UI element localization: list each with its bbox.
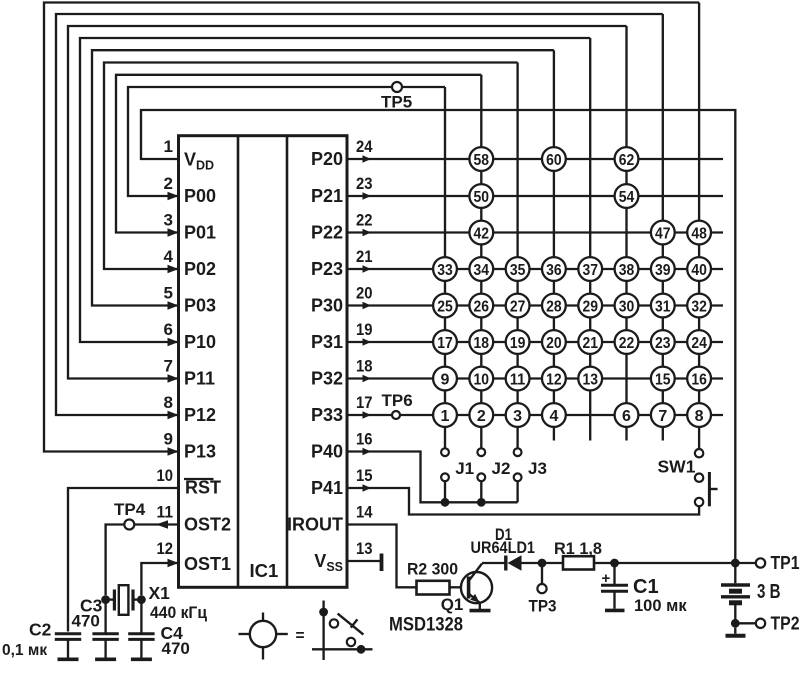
- svg-text:TP2: TP2: [771, 614, 800, 634]
- svg-text:8: 8: [695, 408, 704, 425]
- svg-text:23: 23: [356, 174, 373, 193]
- svg-text:2: 2: [164, 174, 173, 193]
- svg-text:5: 5: [164, 284, 173, 303]
- svg-text:12: 12: [157, 539, 174, 558]
- svg-text:13: 13: [582, 371, 598, 388]
- svg-text:42: 42: [474, 225, 490, 242]
- svg-text:9: 9: [164, 430, 173, 449]
- svg-text:SW1: SW1: [658, 457, 696, 477]
- svg-text:TP5: TP5: [381, 93, 412, 112]
- svg-text:18: 18: [474, 335, 490, 352]
- svg-text:28: 28: [546, 298, 562, 315]
- svg-text:0,1 мк: 0,1 мк: [2, 642, 47, 659]
- svg-text:11: 11: [157, 503, 174, 522]
- svg-text:22: 22: [356, 211, 373, 230]
- svg-text:P13: P13: [184, 442, 216, 462]
- svg-text:P22: P22: [311, 223, 343, 243]
- svg-text:TP3: TP3: [529, 598, 557, 616]
- svg-text:R1 1,8: R1 1,8: [554, 539, 602, 558]
- svg-text:470: 470: [72, 612, 100, 631]
- svg-text:100 мк: 100 мк: [634, 597, 687, 615]
- svg-text:OST1: OST1: [184, 554, 231, 574]
- svg-text:J3: J3: [528, 459, 547, 478]
- svg-text:3: 3: [513, 408, 522, 425]
- svg-text:60: 60: [546, 152, 562, 169]
- svg-text:36: 36: [546, 262, 562, 279]
- svg-text:R2 300: R2 300: [407, 560, 458, 579]
- svg-text:3: 3: [164, 211, 173, 230]
- svg-text:9: 9: [441, 371, 450, 388]
- svg-text:P11: P11: [184, 369, 215, 389]
- svg-text:P10: P10: [184, 332, 216, 352]
- svg-text:P40: P40: [311, 442, 343, 462]
- svg-text:TP6: TP6: [382, 391, 413, 410]
- svg-text:13: 13: [356, 539, 373, 558]
- svg-text:19: 19: [356, 320, 373, 339]
- svg-text:P21: P21: [311, 186, 343, 206]
- svg-text:TP1: TP1: [771, 553, 800, 573]
- svg-text:C2: C2: [29, 620, 52, 640]
- svg-text:Q1: Q1: [441, 595, 464, 614]
- svg-text:23: 23: [655, 335, 671, 352]
- svg-text:47: 47: [655, 225, 671, 242]
- svg-text:16: 16: [691, 371, 707, 388]
- svg-text:25: 25: [437, 298, 453, 315]
- svg-text:P30: P30: [311, 296, 343, 316]
- svg-text:35: 35: [510, 262, 526, 279]
- svg-text:P12: P12: [184, 405, 216, 425]
- svg-text:21: 21: [582, 335, 598, 352]
- svg-text:P03: P03: [184, 296, 216, 316]
- svg-text:24: 24: [356, 137, 373, 156]
- svg-text:15: 15: [655, 371, 671, 388]
- svg-text:IROUT: IROUT: [287, 515, 343, 535]
- svg-text:20: 20: [356, 284, 373, 303]
- svg-text:62: 62: [619, 152, 635, 169]
- svg-text:7: 7: [164, 357, 173, 376]
- svg-text:3 В: 3 В: [757, 581, 781, 603]
- svg-text:27: 27: [510, 298, 526, 315]
- svg-text:MSD1328: MSD1328: [389, 615, 463, 636]
- svg-text:10: 10: [474, 371, 490, 388]
- svg-text:10: 10: [157, 466, 174, 485]
- svg-text:RST: RST: [185, 478, 221, 498]
- svg-text:17: 17: [356, 393, 373, 412]
- svg-text:470: 470: [162, 639, 190, 658]
- svg-text:7: 7: [658, 408, 667, 425]
- svg-text:4: 4: [549, 408, 558, 425]
- svg-text:J2: J2: [492, 459, 511, 478]
- svg-text:C1: C1: [633, 576, 659, 598]
- svg-text:18: 18: [356, 357, 373, 376]
- svg-text:X1: X1: [149, 583, 171, 603]
- svg-text:P23: P23: [311, 259, 343, 279]
- svg-text:17: 17: [437, 335, 453, 352]
- svg-text:1: 1: [164, 137, 173, 156]
- svg-text:1: 1: [441, 408, 450, 425]
- svg-text:54: 54: [619, 189, 635, 206]
- svg-text:P02: P02: [184, 259, 216, 279]
- svg-text:UR64LD1: UR64LD1: [471, 538, 536, 557]
- svg-text:19: 19: [510, 335, 526, 352]
- svg-text:OST2: OST2: [184, 515, 231, 535]
- svg-text:21: 21: [356, 247, 373, 266]
- svg-text:P00: P00: [184, 186, 216, 206]
- svg-text:24: 24: [691, 335, 707, 352]
- svg-text:=: =: [296, 628, 305, 645]
- svg-text:37: 37: [582, 262, 598, 279]
- svg-text:P32: P32: [311, 369, 343, 389]
- svg-text:15: 15: [356, 466, 373, 485]
- svg-text:38: 38: [619, 262, 635, 279]
- svg-text:29: 29: [582, 298, 598, 315]
- svg-text:58: 58: [474, 152, 490, 169]
- svg-text:39: 39: [655, 262, 671, 279]
- svg-text:34: 34: [474, 262, 490, 279]
- svg-text:26: 26: [474, 298, 490, 315]
- svg-text:TP4: TP4: [114, 500, 146, 519]
- svg-text:16: 16: [356, 430, 373, 449]
- svg-text:IC1: IC1: [250, 560, 279, 581]
- svg-text:20: 20: [546, 335, 562, 352]
- svg-text:4: 4: [164, 247, 174, 266]
- svg-text:40: 40: [691, 262, 707, 279]
- svg-text:P33: P33: [311, 405, 343, 425]
- svg-text:12: 12: [546, 371, 562, 388]
- svg-text:11: 11: [510, 371, 526, 388]
- svg-text:30: 30: [619, 298, 635, 315]
- svg-text:14: 14: [356, 503, 373, 522]
- svg-text:P01: P01: [184, 223, 216, 243]
- svg-text:P31: P31: [311, 332, 343, 352]
- svg-text:440 кГц: 440 кГц: [150, 603, 208, 622]
- svg-text:6: 6: [622, 408, 631, 425]
- svg-text:22: 22: [619, 335, 635, 352]
- svg-text:32: 32: [691, 298, 707, 315]
- svg-text:48: 48: [691, 225, 707, 242]
- svg-text:P20: P20: [311, 149, 343, 169]
- svg-text:+: +: [602, 570, 611, 587]
- svg-text:6: 6: [164, 320, 173, 339]
- svg-text:8: 8: [164, 393, 173, 412]
- svg-text:J1: J1: [455, 459, 474, 478]
- svg-text:50: 50: [474, 189, 490, 206]
- svg-text:2: 2: [477, 408, 486, 425]
- svg-text:33: 33: [437, 262, 453, 279]
- svg-text:31: 31: [655, 298, 671, 315]
- svg-text:P41: P41: [311, 478, 343, 498]
